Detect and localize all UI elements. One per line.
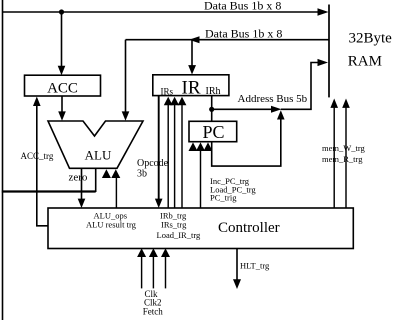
wire address bus continuing right then up into RAM <box>281 63 325 110</box>
wire ACC_trg from controller left side up to ACC <box>37 105 48 226</box>
register ACC <box>25 75 101 96</box>
svg-text:mem_W_trg: mem_W_trg <box>322 143 366 153</box>
arrowhead opcode into controller top <box>155 199 163 208</box>
wire data bus 2 down to ALU right input <box>125 40 127 112</box>
svg-text:Controller: Controller <box>218 220 280 236</box>
svg-text:Opcode: Opcode <box>137 158 169 169</box>
wire from data bus 1 down to ACC <box>61 12 63 67</box>
wire PC output down right and up to address bus <box>212 114 281 167</box>
arrowhead zero into controller top <box>78 199 86 208</box>
arrowhead into ACC top <box>58 66 66 75</box>
wire ALU_ops line from controller <box>115 178 117 209</box>
arrowhead ALU_ops into ALU bottom (right) <box>111 169 120 178</box>
arrowhead Fetch <box>161 248 170 257</box>
register PC <box>189 121 237 141</box>
wire zero flag from ALU down to controller <box>81 168 83 199</box>
wire HLT output down from controller <box>236 249 238 281</box>
svg-text:ACC_trg: ACC_trg <box>21 151 54 161</box>
svg-text:IRs_trg: IRs_trg <box>161 220 187 230</box>
arrowhead data bus 1 into RAM <box>318 8 329 15</box>
svg-text:IRh: IRh <box>206 86 221 97</box>
svg-text:IRs: IRs <box>161 87 174 97</box>
arrowhead into IR top <box>188 65 196 74</box>
wire thick ALU result horizontal to left edge <box>2 190 96 192</box>
wire opcode from IR down to controller <box>158 96 160 200</box>
wire IRs trg line <box>174 104 176 208</box>
svg-text:mem_R_trg: mem_R_trg <box>322 154 363 164</box>
svg-text:32Byte: 32Byte <box>349 31 393 47</box>
svg-text:ALU: ALU <box>85 148 112 163</box>
arrowhead Clk <box>137 248 146 257</box>
wire Fetch input up into controller <box>165 256 167 288</box>
wire Clk input up into controller <box>141 256 143 288</box>
ALU funnel shape <box>48 121 143 168</box>
node junction dot on data bus 1 <box>59 9 64 14</box>
arrowhead mem_R trg <box>342 99 350 108</box>
wire ACC output down to ALU <box>61 96 63 112</box>
arrowhead Load_PC trg into PC bottom <box>196 142 205 151</box>
svg-text:zero: zero <box>69 172 88 184</box>
arrowhead IRs trg into IR bottom <box>170 97 179 106</box>
arrowhead ACC output into ALU top <box>58 111 66 120</box>
wire address bus horizontal from dot <box>212 108 278 110</box>
wire PC trg line down to controller <box>200 151 202 209</box>
svg-text:Data Bus 1b x 8: Data Bus 1b x 8 <box>205 27 282 41</box>
arrowhead HLT <box>233 279 241 289</box>
arrowhead Clk2 <box>149 248 158 257</box>
wire mem_R trg up to RAM <box>345 108 347 209</box>
wire IRh output down to PC / address bus <box>211 96 213 122</box>
arrowhead address bus pointing right at PC merge <box>271 106 282 113</box>
svg-text:Address Bus 5b: Address Bus 5b <box>238 93 308 105</box>
arrowhead on data bus 2 pointing left at IR branch <box>189 36 200 43</box>
svg-text:ACC: ACC <box>47 81 78 97</box>
arrowhead Load_IR trg into IR bottom <box>178 97 187 106</box>
data bus 2 horizontal <box>126 39 330 41</box>
controller box <box>48 208 353 249</box>
arrowhead into ALU top right <box>122 111 130 120</box>
svg-text:Fetch: Fetch <box>143 307 163 317</box>
wire data bus 2 down to IR <box>191 40 193 66</box>
svg-text:IR: IR <box>182 78 201 99</box>
wire mem_W trg up to RAM <box>333 108 335 209</box>
wire Clk2 input up into controller <box>152 256 154 288</box>
RAM port vertical line <box>328 5 330 98</box>
arrowhead IRb trg into IR bottom <box>164 97 173 106</box>
wire ALU result down to thick bus <box>95 168 97 192</box>
wire Load_IR trg line <box>181 104 183 208</box>
svg-text:3b: 3b <box>137 169 147 180</box>
svg-text:PC: PC <box>202 122 224 142</box>
svg-text:PC_trig: PC_trig <box>210 193 237 203</box>
svg-text:HLT_trg: HLT_trg <box>240 261 270 271</box>
arrowhead address bus into RAM <box>318 59 329 66</box>
arrowhead mem_W trg <box>330 99 338 108</box>
arrowhead PC trg into PC bottom <box>204 142 213 151</box>
svg-text:Load_IR_trg: Load_IR_trg <box>157 230 202 240</box>
wire IRb trg line <box>167 104 169 208</box>
wire left edge vertical (ALU result feedback to data bus) <box>2 0 4 320</box>
svg-text:RAM: RAM <box>348 54 382 70</box>
node junction dot on IRh line <box>209 107 214 112</box>
register IR <box>153 75 229 96</box>
arrowhead PC output up into address bus <box>277 110 285 119</box>
arrowhead ALU_ops into ALU bottom (left) <box>102 169 111 178</box>
svg-text:Data Bus 1b x 8: Data Bus 1b x 8 <box>204 0 281 13</box>
arrowhead Inc_PC trg into PC bottom <box>189 142 198 151</box>
arrowhead ACC_trg into ACC bottom <box>33 97 41 107</box>
svg-text:ALU result trg: ALU result trg <box>86 220 137 230</box>
wire data bus 1 horizontal <box>3 11 321 13</box>
